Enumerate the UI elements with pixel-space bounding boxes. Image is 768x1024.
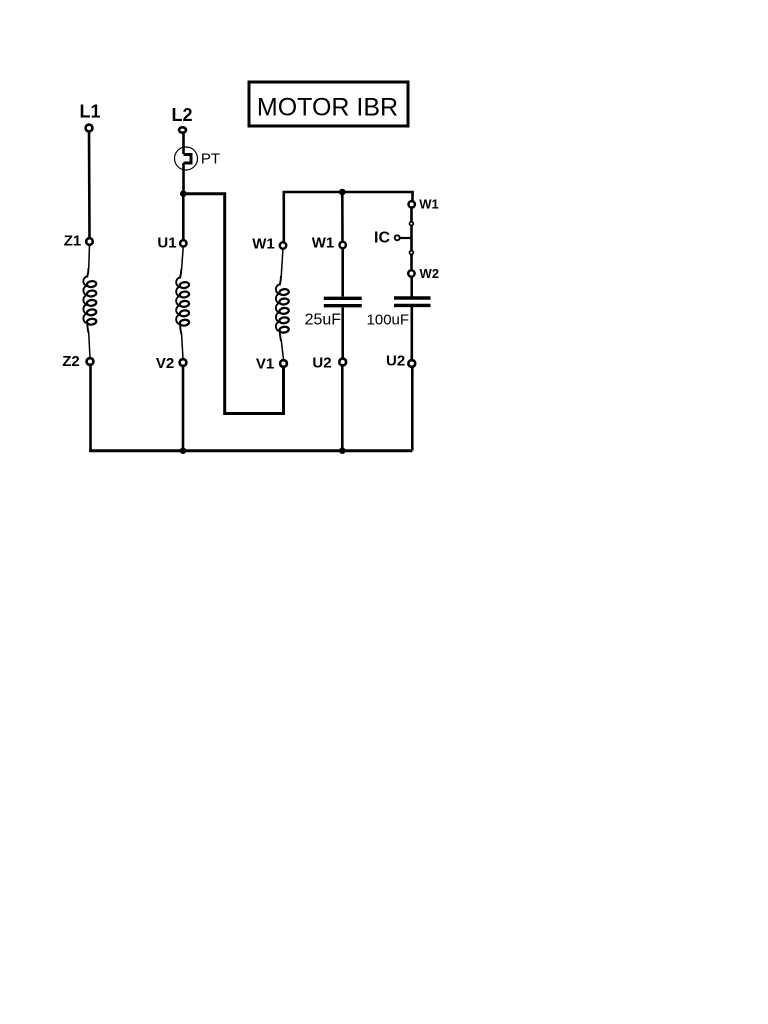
thermal protector PT circle: [175, 147, 198, 170]
wire Z1 to winding Z: [88, 245, 91, 270]
wire W1 to capacitor 25uF: [341, 248, 344, 297]
wire PT to junction: [182, 163, 185, 194]
svg-text:MOTOR IBR: MOTOR IBR: [257, 94, 398, 122]
terminal W1 (25uF branch): [340, 242, 346, 248]
wire switch to W2: [410, 254, 413, 270]
wire winding Z to Z2: [89, 332, 90, 358]
svg-text:W1: W1: [419, 197, 439, 212]
svg-text:25uF: 25uF: [305, 312, 342, 329]
svg-text:U2: U2: [386, 353, 405, 370]
wire junction to V1 (right-down-right-up jog): [183, 194, 283, 414]
terminal W2: [408, 270, 414, 276]
svg-text:100uF: 100uF: [367, 312, 410, 329]
svg-text:Z2: Z2: [62, 353, 80, 370]
wire L1 to Z1: [88, 132, 91, 239]
terminal V2: [180, 359, 187, 366]
terminal Z1: [86, 238, 93, 245]
title box MOTOR IBR: [249, 82, 408, 126]
wire winding U to V2: [182, 333, 184, 359]
wire V2 to bottom rail: [182, 366, 185, 451]
terminal L1: [86, 125, 93, 132]
wire L2 to PT: [182, 133, 185, 154]
junction node on top rail (25uF branch): [339, 189, 346, 196]
centrifugal switch IC stub wire: [400, 237, 411, 239]
terminal U2 (switch branch): [408, 360, 415, 367]
svg-text:W1: W1: [312, 235, 335, 252]
junction node bottom rail at U2: [339, 447, 346, 454]
wire U2 to bottom rail (25uF branch): [341, 366, 344, 451]
svg-text:PT: PT: [201, 151, 220, 168]
wire Z2 to bottom rail: [89, 365, 92, 451]
wire W1 to winding W: [281, 248, 283, 277]
svg-text:V2: V2: [156, 355, 174, 372]
wire top rail to W1 (25uF branch): [341, 192, 344, 242]
junction node bottom rail at V2: [180, 447, 187, 454]
terminal V1: [280, 360, 287, 367]
svg-text:W2: W2: [420, 266, 440, 281]
svg-text:U2: U2: [312, 354, 331, 371]
switch node lower: [410, 251, 414, 255]
winding Z (inductor): [83, 268, 96, 333]
svg-text:V1: V1: [256, 355, 274, 372]
winding U (inductor): [176, 269, 189, 334]
terminal U1: [180, 240, 186, 246]
bottom rail wire: [89, 449, 412, 452]
wire junction to U1: [182, 194, 185, 240]
svg-text:L1: L1: [79, 102, 100, 122]
svg-text:L2: L2: [171, 105, 192, 125]
wire top rail corner down to W1 (switch branch): [411, 192, 414, 201]
capacitor C2 100uF plates: [394, 296, 431, 299]
centrifugal switch IC circle: [395, 235, 400, 240]
svg-text:U1: U1: [157, 234, 176, 251]
svg-text:W1: W1: [252, 235, 275, 252]
wire U1 to winding U: [182, 246, 184, 270]
capacitor C1 25uF plates: [324, 297, 362, 300]
wire capacitor 25uF to U2: [341, 307, 344, 358]
terminal Z2: [87, 358, 94, 365]
terminal U2 (25uF branch): [339, 359, 346, 366]
winding W (inductor): [276, 276, 289, 341]
wire W2 to capacitor 100uF: [410, 276, 413, 296]
svg-text:Z1: Z1: [64, 233, 82, 250]
switch node upper: [410, 222, 414, 226]
junction node at L2/U1: [180, 190, 187, 197]
terminal L2: [179, 127, 186, 132]
wire capacitor 100uF to U2 (switch branch): [410, 307, 413, 360]
terminal W1 (winding W): [280, 242, 286, 248]
top rail wire W1 to switch branch: [284, 192, 414, 244]
wire U2 to bottom rail (switch branch): [411, 367, 414, 451]
wire W1 to switch node (switch branch): [410, 207, 413, 256]
svg-text:IC: IC: [374, 230, 390, 247]
terminal W1 (switch branch): [409, 201, 415, 207]
thermal protector PT jog symbol: [184, 155, 192, 164]
wire winding W to V1: [281, 340, 283, 360]
